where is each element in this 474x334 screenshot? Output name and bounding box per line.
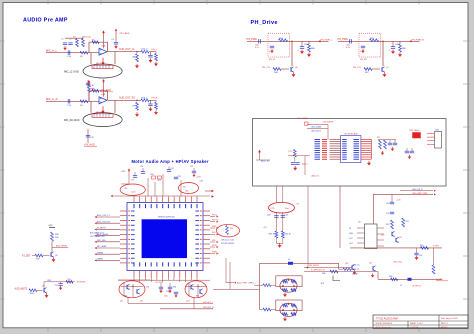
ground capacitor C62 — [271, 49, 273, 51]
resistor R73 vertical mid — [293, 150, 296, 158]
capacitor C53 output — [168, 286, 172, 288]
svg-text:R82 1K: R82 1K — [285, 234, 292, 236]
wire ellipse R internals — [188, 282, 190, 296]
svg-text:C30: C30 — [124, 188, 127, 190]
inductor L2 bead — [288, 262, 293, 265]
capacitor C28 top — [174, 176, 178, 178]
svg-text:PH_CTL: PH_CTL — [353, 67, 362, 69]
ground resistor R69 — [399, 53, 401, 55]
resistor R4 input series — [80, 100, 88, 103]
annotation ellipse top left — [120, 184, 145, 195]
ground capacitor C65 — [392, 50, 394, 52]
capacitor C26 top — [167, 169, 171, 171]
svg-text:1u/25: 1u/25 — [131, 192, 136, 194]
svg-text:R96: R96 — [389, 276, 392, 278]
wire spk top rail — [260, 262, 339, 264]
resistor R69 shunt — [399, 44, 402, 52]
resistor R7 bias — [88, 84, 91, 92]
ground C27 — [193, 174, 195, 175]
wire U10 right bus — [370, 139, 372, 159]
wire spkout R — [160, 308, 213, 310]
ground capacitor C64 — [301, 50, 303, 52]
svg-text:C93: C93 — [419, 255, 422, 257]
wire section left — [259, 155, 261, 160]
wire amp power rail — [373, 193, 433, 195]
svg-text:AUD WAVE OUT: AUD WAVE OUT — [90, 232, 105, 235]
frame zone ticks top edge — [48, 0, 419, 5]
capacitor C90 amp — [390, 201, 394, 203]
capacitor C45 group — [388, 142, 392, 144]
svg-text:SPKOUT_R: SPKOUT_R — [203, 307, 214, 309]
transistor Q6 — [290, 67, 292, 71]
svg-text:R50: R50 — [151, 174, 154, 176]
ground capacitor C63 — [362, 49, 364, 51]
wire input mic L — [46, 52, 99, 54]
svg-text:AUD_5V: AUD_5V — [312, 175, 320, 178]
ground capacitor C58 — [60, 286, 62, 288]
svg-text:Q17: Q17 — [369, 263, 372, 265]
resistor R93 on rail — [421, 247, 429, 250]
svg-text:+12V: +12V — [396, 200, 401, 202]
svg-text:AUD_MUTE: AUD_MUTE — [15, 287, 28, 290]
svg-text:PH_R: PH_R — [152, 98, 158, 100]
svg-text:AUD_C: AUD_C — [302, 163, 309, 166]
svg-text:SPK_SEL: SPK_SEL — [97, 240, 107, 242]
capacitor C10 input coupling — [67, 51, 69, 55]
capacitor C62 in box — [270, 45, 274, 47]
svg-text:PH_MUTE: PH_MUTE — [309, 265, 320, 267]
ground jack JK2 — [284, 317, 286, 319]
resistor R9 load — [136, 102, 139, 110]
resistor R2 bias — [82, 39, 85, 47]
svg-text:R88: R88 — [48, 280, 51, 282]
svg-text:Q16: Q16 — [345, 263, 348, 265]
transistor Q11 — [190, 285, 192, 289]
svg-text:Q15: Q15 — [399, 237, 402, 239]
svg-text:PH_PWR: PH_PWR — [247, 38, 258, 41]
svg-text:Q14: Q14 — [381, 235, 384, 237]
ground jack JK1 — [284, 293, 286, 295]
ground pull group — [382, 151, 384, 153]
svg-text:R70: R70 — [377, 137, 380, 139]
wire below qfp rail 280 — [118, 279, 210, 281]
resistor R8 load — [136, 54, 139, 62]
net label AUD_SHDN Q5 — [52, 247, 68, 249]
svg-text:SPK_R-: SPK_R- — [353, 269, 360, 271]
resistor R13 series out — [141, 99, 149, 102]
svg-text:AUD_PWR: AUD_PWR — [237, 282, 248, 285]
wire top area riser c — [162, 174, 164, 197]
capacitor C80 — [274, 215, 278, 217]
svg-text:C54: C54 — [55, 285, 58, 287]
wire ellipse R to spk rail — [194, 297, 210, 309]
svg-text:R13_0: R13_0 — [142, 97, 149, 99]
wire ph mute stub — [304, 267, 352, 269]
resistor R40 base — [29, 289, 37, 292]
svg-text:C24: C24 — [140, 166, 143, 168]
capacitor C91 amp — [390, 211, 394, 213]
wire jack ground L — [87, 80, 89, 89]
annotation ellipse output L — [119, 281, 145, 298]
svg-text:R91: R91 — [406, 221, 409, 223]
resistor R5 feedback — [92, 41, 99, 44]
resistor R81 — [275, 231, 278, 238]
svg-text:4.7u: 4.7u — [255, 47, 259, 49]
arrow into jack R — [102, 106, 104, 111]
ground C47 C48 — [409, 155, 411, 157]
svg-text:C81: C81 — [285, 215, 288, 217]
svg-text:AGND: AGND — [353, 273, 359, 276]
wire drops all pins — [133, 278, 135, 281]
svg-text:AUD_OUT_R1: AUD_OUT_R1 — [119, 97, 135, 100]
capacitor C2 bypass — [68, 42, 72, 44]
svg-text:C46 1000PF: C46 1000PF — [323, 121, 334, 123]
net label AUD_SHDN — [97, 235, 120, 237]
svg-text:GAIN0: GAIN0 — [97, 251, 104, 254]
capacitor C54 output — [174, 291, 178, 293]
wire section to ellipse A — [275, 186, 277, 203]
svg-text:PJ_DET: PJ_DET — [22, 255, 31, 257]
resistor R_SPK — [432, 265, 435, 274]
ground resistor R16 — [155, 62, 157, 64]
svg-text:MIC_L2 JACK: MIC_L2 JACK — [64, 71, 80, 74]
wire top bus — [113, 195, 210, 197]
svg-text:Motor Audio Amp + HP/AV Speake: Motor Audio Amp + HP/AV Speaker — [132, 159, 209, 164]
wire amp rail into box — [372, 194, 374, 224]
ic U6 left pins — [357, 227, 365, 229]
wires qfp top pins — [134, 197, 197, 203]
capacitor C15 out filter — [148, 103, 152, 105]
svg-text:PH_PWR_R: PH_PWR_R — [412, 39, 425, 41]
annotation ellipse top right — [179, 183, 199, 194]
junction output R — [136, 100, 138, 102]
capacitor C5 supply decouple — [115, 31, 117, 33]
connector JK1 speaker jack L — [276, 276, 302, 287]
resistor R90 amp — [391, 220, 394, 229]
svg-text:SPK_L+: SPK_L+ — [249, 283, 257, 285]
wire ph drive rail R — [338, 40, 420, 42]
svg-text:R12_0: R12_0 — [142, 49, 149, 51]
svg-text:R96: R96 — [322, 273, 325, 275]
wire above qfp left — [121, 173, 129, 184]
op-amp U1B — [99, 97, 107, 104]
svg-text:MIC_BIAS: MIC_BIAS — [97, 245, 107, 248]
svg-text:R/C=NC+R0505: R/C=NC+R0505 — [221, 243, 234, 245]
capacitor C23 top area — [133, 175, 137, 177]
ic U2 right pin labels — [200, 211, 202, 264]
ic U2 bottom pin labels — [134, 262, 198, 266]
capacitor C60 coupling — [258, 39, 260, 43]
svg-text:SHEET 1 OF 4: SHEET 1 OF 4 — [410, 323, 423, 325]
svg-text:AUDIO Series Doc: AUDIO Series Doc — [376, 326, 392, 329]
wire feedback loop R — [89, 91, 108, 102]
wire qfp right bundle down — [226, 258, 234, 283]
ground transistor Q17 — [372, 274, 374, 276]
svg-text:4.7u: 4.7u — [346, 47, 350, 49]
svg-text:MIC_in_L: MIC_in_L — [46, 49, 58, 53]
svg-text:R51: R51 — [158, 180, 161, 182]
svg-text:C23: C23 — [131, 180, 134, 182]
capacitor C46 group — [393, 142, 397, 144]
wire below qfp drops — [139, 278, 141, 283]
ground capacitor C14 — [150, 58, 152, 60]
wire to mic jack L — [90, 53, 92, 64]
svg-text:AUD_DATA: AUD_DATA — [312, 126, 322, 129]
svg-text:U9 C_PWR: U9 C_PWR — [298, 118, 308, 120]
ic U10 left pins — [330, 139, 341, 159]
resistor R17 out shunt — [155, 102, 158, 109]
wire transistor collector R — [382, 41, 384, 66]
svg-text:GND: GND — [349, 233, 354, 235]
ic U2 left pin labels — [128, 211, 130, 264]
svg-text:HPO_R: HPO_R — [212, 220, 219, 222]
svg-text:SPK+: SPK+ — [212, 232, 216, 234]
resistor R66 base — [273, 68, 281, 71]
svg-text:R73: R73 — [289, 151, 292, 153]
svg-text:W_MUTE: W_MUTE — [97, 228, 106, 230]
transistor Q17 — [372, 266, 374, 270]
wire top left feed b — [307, 128, 328, 130]
ic U6 driver box — [365, 224, 378, 249]
svg-text:C90: C90 — [386, 203, 389, 205]
transistor Q15 — [395, 238, 397, 242]
svg-text:PH_PWR_L: PH_PWR_L — [321, 39, 334, 41]
svg-text:AUD_HP_R: AUD_HP_R — [413, 188, 424, 191]
power +12V Q5 circuit — [49, 226, 55, 228]
resistor R91 amp — [402, 218, 405, 227]
svg-text:AUD_SHDN: AUD_SHDN — [56, 245, 68, 248]
power arrow section left — [259, 152, 261, 154]
svg-text:PGND: PGND — [212, 251, 218, 253]
wire R36 to Q5 — [51, 241, 53, 252]
net label PH_PWR_R out — [409, 40, 412, 42]
arrow into jack L — [102, 58, 104, 63]
transistor Q14 — [391, 232, 393, 236]
connector MIC_R2 jack — [83, 113, 122, 127]
jumper JP2 — [333, 276, 340, 281]
capacitor C49 mid — [291, 162, 295, 164]
svg-text:SPK-: SPK- — [212, 240, 216, 242]
svg-text:RP1 10Kx4: RP1 10Kx4 — [410, 130, 421, 132]
frame zone ticks bottom edge — [48, 327, 419, 332]
resistor R51 top — [158, 176, 162, 179]
wire output left rail — [118, 279, 150, 281]
ground mid caps — [294, 166, 296, 168]
transistor Q12 — [199, 289, 201, 293]
wire input mic R — [46, 100, 99, 102]
svg-text:+12V: +12V — [196, 177, 201, 179]
capacitor C14 out filter — [148, 54, 152, 56]
ic U10 left signal names — [315, 139, 321, 160]
ic U2 W56940 QFN-48 body — [127, 203, 203, 271]
wire ellipse L to spk rail — [128, 297, 150, 304]
transistor Q7 — [381, 67, 383, 71]
wire group rail — [378, 139, 396, 141]
resistor R82 — [281, 231, 284, 238]
svg-text:PH_PWR: PH_PWR — [338, 38, 349, 41]
capacitor C58 — [58, 283, 62, 285]
svg-text:L3: L3 — [400, 285, 402, 287]
junction below R — [197, 286, 198, 287]
annotation ellipse C75 — [269, 202, 295, 213]
connector CN2 4 pin — [435, 132, 442, 149]
capacitor C81 — [281, 215, 285, 217]
svg-text:AUD_OUT_L1: AUD_OUT_L1 — [119, 48, 135, 51]
arrow top bus right — [212, 190, 215, 192]
net label AUD_OUT_L1 — [97, 216, 120, 218]
capacitor C63 in box — [361, 45, 365, 47]
resistor R96 — [391, 278, 398, 281]
wire transistor collector L — [291, 41, 293, 66]
svg-text:U10 HOST-AUD: U10 HOST-AUD — [344, 132, 358, 135]
resistor R89 — [66, 280, 73, 283]
capacitor C48 — [410, 150, 414, 152]
title block row lines — [373, 320, 468, 322]
wire feedback loop L — [89, 42, 108, 53]
svg-text:R60: R60 — [124, 296, 127, 298]
wire ellipse L cross — [121, 286, 143, 288]
svg-text:C55: C55 — [166, 291, 169, 293]
svg-text:MIC_R2 JACK: MIC_R2 JACK — [64, 119, 80, 122]
capacitor C50 mid — [295, 162, 299, 164]
svg-text:P_SPK: P_SPK — [433, 245, 440, 247]
wire op-amp output R — [108, 99, 141, 101]
svg-text:P_SPKOUT_R: P_SPKOUT_R — [311, 269, 325, 271]
svg-text:Date: Aug 16 2005: Date: Aug 16 2005 — [441, 317, 458, 320]
junction output L — [136, 51, 138, 53]
resistor R1 bias — [76, 39, 79, 47]
wire chain B — [282, 212, 284, 231]
frame zone ticks left edge — [0, 41, 5, 299]
ground transistor Q16 — [354, 271, 356, 273]
net label AUD_OUT_R1 — [97, 222, 120, 224]
ic U10 right pins — [361, 139, 372, 159]
resistor R70 pull group — [379, 140, 382, 149]
svg-text:HPO_L: HPO_L — [212, 214, 218, 216]
resistor R100 — [260, 309, 264, 311]
dashed option box L — [268, 33, 290, 57]
svg-text:PVDD: PVDD — [212, 245, 217, 247]
svg-text:R63: R63 — [173, 287, 176, 289]
wire ph drive rail L — [247, 40, 329, 42]
arrow top bus left — [111, 195, 113, 197]
wire ellipse L internals — [123, 282, 125, 296]
ground U10 — [368, 161, 370, 163]
svg-text:PH_Drive: PH_Drive — [251, 20, 278, 26]
resistor R99 — [254, 284, 263, 286]
svg-text:W_MUTE: W_MUTE — [77, 282, 87, 284]
svg-text:R2 10K: R2 10K — [84, 37, 91, 39]
section frame connector block — [253, 119, 447, 187]
wire section to ellipse B — [282, 186, 284, 203]
svg-text:TITLE AUDIO AMP: TITLE AUDIO AMP — [376, 316, 398, 320]
ic U2 right pins — [203, 211, 210, 263]
net label GAIN1 — [97, 259, 120, 261]
wire Q7 collector — [43, 282, 45, 288]
net label MIC_BIAS — [97, 247, 120, 249]
net label SPK_SEL — [97, 241, 120, 243]
ground capacitor C15 — [150, 107, 152, 109]
svg-text:PH_VR: PH_VR — [360, 59, 367, 61]
svg-text:PH_CTL: PH_CTL — [262, 67, 271, 69]
svg-text:+12V: +12V — [121, 171, 126, 173]
ic U2 bottom pins — [134, 271, 197, 278]
wire top area riser d — [180, 180, 182, 197]
wire amp rail down left — [339, 186, 341, 248]
svg-text:AUD_VDD: AUD_VDD — [394, 261, 403, 264]
capacitor C52 output — [159, 286, 163, 288]
capacitor C27 top area — [192, 170, 196, 172]
wire spk right drop — [338, 263, 340, 269]
resistor R68 shunt — [308, 44, 311, 52]
capacitor C18 jack filter — [86, 82, 90, 84]
power arrow above qfp left — [128, 171, 130, 173]
svg-text:AUD_AMP_PWR: AUD_AMP_PWR — [413, 192, 428, 195]
svg-text:PH_L: PH_L — [152, 49, 158, 51]
svg-text:GAIN1: GAIN1 — [97, 258, 104, 261]
svg-text:L/R CONNECTED: L/R CONNECTED — [90, 236, 105, 238]
svg-text:C91: C91 — [386, 213, 389, 215]
transistor Q8 — [126, 285, 128, 289]
wire chain A — [275, 212, 277, 231]
net label W_MUTE — [97, 228, 120, 230]
svg-text:R90: R90 — [386, 224, 389, 226]
capacitor C11 input coupling — [67, 99, 69, 103]
svg-text:R89: R89 — [68, 279, 71, 281]
wire top area riser a — [147, 178, 149, 197]
transistor Q7 — [43, 288, 45, 292]
connector MIC_L2 jack — [83, 64, 122, 78]
wire mid rail to RSPK — [433, 248, 435, 265]
ground transistor Q7 — [46, 293, 48, 295]
resistor R6 feedback — [92, 89, 99, 92]
resistor R61 in box — [370, 39, 379, 42]
wire section to mute rail — [307, 186, 309, 268]
wire spkout L — [150, 303, 213, 305]
svg-text:MIC_R: MIC_R — [96, 112, 102, 114]
component C60 small — [305, 122, 309, 125]
svg-text:SPKOUT_L: SPKOUT_L — [203, 302, 214, 304]
ground capacitor C53 — [169, 289, 171, 291]
ground transistor Q7 — [384, 73, 386, 75]
capacitor C1 bypass — [63, 42, 67, 44]
svg-text:SPK_R+: SPK_R+ — [353, 264, 361, 266]
frame zone ticks right edge — [463, 41, 470, 299]
svg-text:C27: C27 — [190, 166, 193, 168]
svg-text:C56: C56 — [146, 287, 149, 289]
transistor Q16 — [351, 265, 353, 269]
svg-text:PH_VL: PH_VL — [269, 59, 276, 61]
power +12V bias network R — [88, 83, 90, 85]
ic U6 right pins — [377, 227, 384, 229]
wire mid drop — [304, 156, 306, 175]
ic U2 die area — [142, 219, 187, 258]
junction below L — [132, 286, 133, 287]
wire mid rail — [288, 155, 310, 157]
capacitor C24 top — [141, 171, 145, 173]
capacitor C47 — [405, 150, 409, 152]
op-amp U1A — [99, 48, 107, 55]
annotation ellipse output R — [185, 281, 207, 298]
svg-text:CUSTOM: CUSTOM — [410, 327, 419, 329]
svg-text:C28: C28 — [178, 176, 181, 178]
connector JK2 speaker jack R — [276, 300, 302, 311]
power +12V op-amp U1B — [103, 82, 105, 84]
svg-text:AUD_BCLK: AUD_BCLK — [312, 130, 322, 133]
svg-text:+5V_AUD: +5V_AUD — [84, 144, 95, 147]
ic U2 top pin labels — [134, 204, 198, 208]
transistor Q9 — [136, 289, 138, 293]
